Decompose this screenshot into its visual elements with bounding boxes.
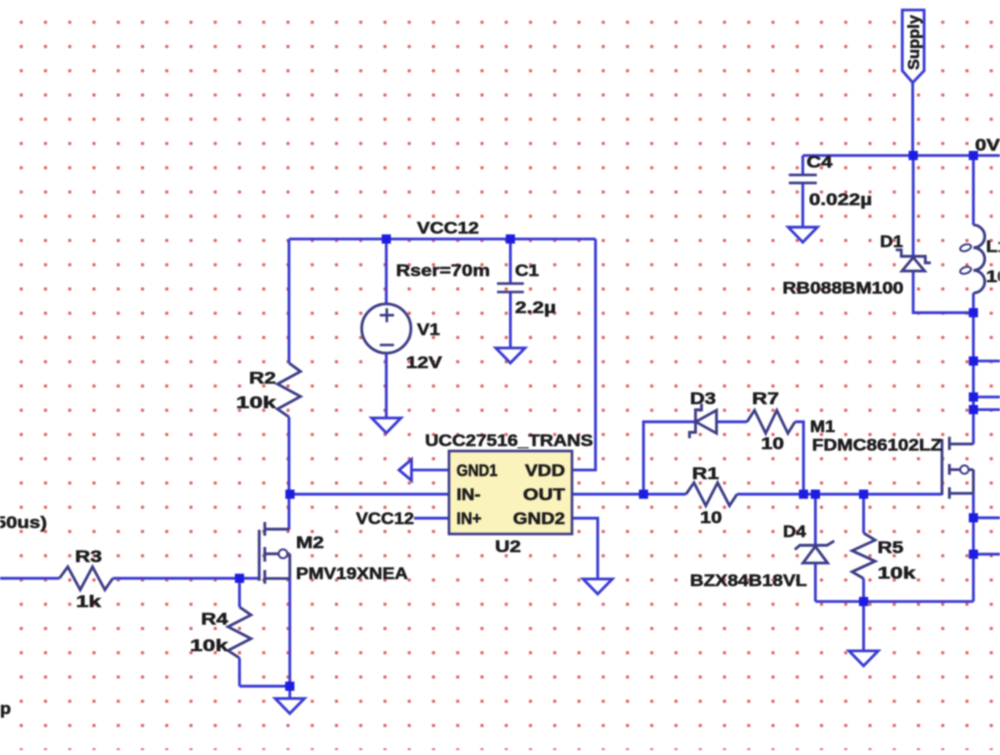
wire R3 to M2 gate bbox=[113, 577, 259, 580]
junction M1 source stub upper bbox=[969, 513, 978, 522]
svg-text:Rser=70m: Rser=70m bbox=[396, 262, 490, 280]
junction M1 source stub lower bbox=[969, 550, 978, 559]
wire R5 bottom stub bbox=[862, 579, 865, 602]
svg-text:1k: 1k bbox=[76, 593, 102, 611]
transistor M1 NMOS bbox=[941, 439, 944, 495]
wire C4 top stub bbox=[801, 156, 804, 175]
svg-text:R5: R5 bbox=[878, 539, 904, 557]
svg-text:U2: U2 bbox=[495, 538, 521, 556]
port flag Supply bbox=[902, 10, 924, 83]
diode D3 schottky bbox=[696, 410, 717, 433]
wire D4 bottom stub bbox=[814, 563, 817, 601]
wire R2 bottom to M2 drain / IN- node bbox=[288, 417, 291, 529]
svg-text:12V: 12V bbox=[406, 354, 442, 372]
svg-text:BZX84B18VL: BZX84B18VL bbox=[690, 572, 807, 590]
svg-text:UCC27516_TRANS: UCC27516_TRANS bbox=[425, 432, 593, 450]
resistor R4 bbox=[228, 607, 251, 658]
wire U2 VDD to VCC12 rail bbox=[572, 239, 596, 470]
wire D4 top stub bbox=[814, 494, 817, 545]
resistor R7 bbox=[747, 410, 795, 433]
wire D1 top stub bbox=[912, 156, 915, 257]
resistor R2 bbox=[278, 363, 301, 417]
svg-text:10k: 10k bbox=[190, 637, 229, 655]
wire C4 bottom stub to ground bbox=[801, 183, 804, 227]
junction M2 source-R4-gnd bbox=[285, 682, 294, 691]
junction R3-R4-M2 gate bbox=[235, 574, 244, 583]
wire U2 OUT to R1 bbox=[572, 493, 686, 496]
svg-text:OUT: OUT bbox=[523, 486, 565, 504]
wire M2 source node to ground bbox=[288, 686, 291, 698]
wire Supply flag to rail bbox=[911, 83, 914, 156]
wire U2 GND1 stub bbox=[412, 469, 450, 472]
resistor R1 bbox=[686, 483, 737, 506]
wire stub right mid bbox=[973, 396, 1000, 399]
svg-text:GND2: GND2 bbox=[513, 510, 565, 528]
svg-text:M2: M2 bbox=[296, 534, 324, 552]
wire bottom rail D4-R5-M1 source bbox=[815, 600, 973, 603]
svg-text:C1: C1 bbox=[515, 262, 539, 280]
wire R4 bottom to M2 source node bbox=[240, 685, 290, 688]
capacitor C4 bbox=[789, 175, 817, 183]
wire R1 to M1 gate bbox=[737, 493, 942, 496]
resistor R3 bbox=[59, 567, 112, 590]
ground under C1 bbox=[496, 348, 525, 363]
ground under U2 GND2 bbox=[583, 579, 612, 594]
diode D1 schottky bbox=[902, 257, 925, 271]
svg-text:PMV19XNEA: PMV19XNEA bbox=[296, 565, 408, 583]
wire stub right lower bbox=[973, 408, 1000, 411]
wire stub right at M1 source upper bbox=[973, 516, 1000, 519]
svg-text:10k: 10k bbox=[236, 394, 277, 412]
U2 GND1 input arrow bbox=[399, 460, 412, 481]
svg-text:VCC12: VCC12 bbox=[356, 510, 414, 528]
svg-text:V1: V1 bbox=[417, 321, 440, 339]
junction R5 top bbox=[859, 490, 868, 499]
svg-text:C4: C4 bbox=[807, 154, 834, 172]
resistor R5 bbox=[852, 533, 875, 579]
svg-text:10: 10 bbox=[700, 509, 722, 527]
svg-text:RB088BM100: RB088BM100 bbox=[783, 280, 904, 298]
wire stub right at M1 source lower bbox=[973, 553, 1000, 556]
junction V1-VCC12 bbox=[382, 234, 391, 243]
wire U2 IN+ stub to VCC12 label bbox=[414, 517, 449, 520]
svg-text:M1: M1 bbox=[810, 418, 835, 436]
ground under M2 source bbox=[275, 699, 304, 714]
wire R4 top stub bbox=[238, 578, 241, 607]
wire R5 node to ground stem bbox=[862, 602, 865, 651]
svg-text:50us): 50us) bbox=[0, 514, 47, 532]
junction D1-L1 bottom bbox=[969, 308, 978, 317]
svg-text:10: 10 bbox=[761, 435, 784, 453]
svg-text:L1: L1 bbox=[986, 238, 1000, 256]
wire D1 bottom to inductor node bbox=[913, 271, 973, 313]
svg-text:FDMC86102LZ: FDMC86102LZ bbox=[812, 437, 942, 455]
wire C1 bottom stub to ground bbox=[509, 292, 512, 348]
transistor M2 NMOS bbox=[258, 530, 261, 581]
junction OUT-D3 branch bbox=[639, 490, 648, 499]
svg-text:2.2µ: 2.2µ bbox=[515, 299, 556, 317]
junction IN- node bbox=[285, 490, 294, 499]
capacitor C1 bbox=[497, 284, 524, 292]
wire R4 bottom stub bbox=[238, 658, 241, 686]
ground under C4 bbox=[788, 227, 817, 242]
wire R7 down to OUT node bbox=[795, 422, 804, 494]
svg-text:0.022µ: 0.022µ bbox=[809, 191, 872, 209]
wire M1 drain up to inductor bbox=[972, 293, 975, 444]
wire C1 top stub bbox=[509, 239, 512, 284]
svg-text:R1: R1 bbox=[692, 465, 719, 483]
svg-text:R7: R7 bbox=[752, 390, 779, 408]
svg-text:D4: D4 bbox=[783, 523, 807, 541]
wire OUT node up to D3 bbox=[644, 422, 696, 494]
ground under R5 bbox=[849, 651, 878, 666]
wire left edge to R3 bbox=[0, 577, 59, 580]
svg-text:R4: R4 bbox=[201, 611, 229, 629]
wire D3 to R7 bbox=[717, 420, 748, 423]
ground under V1 bbox=[372, 418, 401, 433]
junction stub lower bbox=[969, 405, 978, 414]
inductor L1 bbox=[973, 225, 984, 293]
svg-text:R2: R2 bbox=[249, 370, 276, 388]
wire R5 top stub bbox=[862, 494, 865, 533]
wire supply top rail bbox=[803, 154, 1000, 157]
wire M1 source vertical bbox=[972, 493, 975, 601]
wire VCC12 rail down to R2 bbox=[288, 239, 291, 363]
svg-text:D1: D1 bbox=[880, 233, 903, 251]
diode D4 zener bbox=[803, 546, 828, 563]
wire M2 source down bbox=[288, 579, 291, 687]
junction R7 branch bbox=[799, 490, 808, 499]
junction stub upper bbox=[969, 356, 978, 365]
wire stub right upper bbox=[973, 360, 1000, 363]
junction R5 bottom-gnd bbox=[859, 597, 868, 606]
wire U2 GND2 to ground bbox=[572, 518, 598, 579]
wire U2 IN- to M2 drain node bbox=[290, 493, 449, 496]
svg-text:Supply: Supply bbox=[906, 15, 923, 70]
svg-text:VDD: VDD bbox=[525, 462, 565, 480]
svg-text:D3: D3 bbox=[690, 390, 716, 408]
svg-text:VCC12: VCC12 bbox=[417, 220, 479, 238]
svg-text:GND1: GND1 bbox=[457, 462, 498, 480]
junction stub mid bbox=[969, 392, 978, 401]
wire inductor top to supply rail bbox=[972, 156, 975, 226]
svg-text:0V: 0V bbox=[975, 137, 1000, 155]
voltage source V1 bbox=[362, 304, 411, 353]
op-amp U2 UCC27516 box bbox=[449, 451, 572, 534]
wire VCC12 top rail bbox=[289, 238, 596, 241]
junction Supply node bbox=[909, 151, 918, 160]
wire V1 bottom stub to ground bbox=[385, 353, 388, 418]
svg-text:10k: 10k bbox=[878, 565, 917, 583]
svg-text:IN+: IN+ bbox=[457, 510, 482, 528]
svg-text:R3: R3 bbox=[75, 548, 102, 566]
svg-text:IN-: IN- bbox=[457, 486, 481, 504]
junction C1-VCC12 bbox=[506, 234, 515, 243]
junction D4 top bbox=[811, 490, 820, 499]
junction supply rail-L1 bbox=[969, 151, 978, 160]
svg-text:10µ: 10µ bbox=[986, 268, 1000, 286]
wire V1 top stub bbox=[385, 239, 388, 304]
svg-text:p: p bbox=[0, 700, 11, 718]
